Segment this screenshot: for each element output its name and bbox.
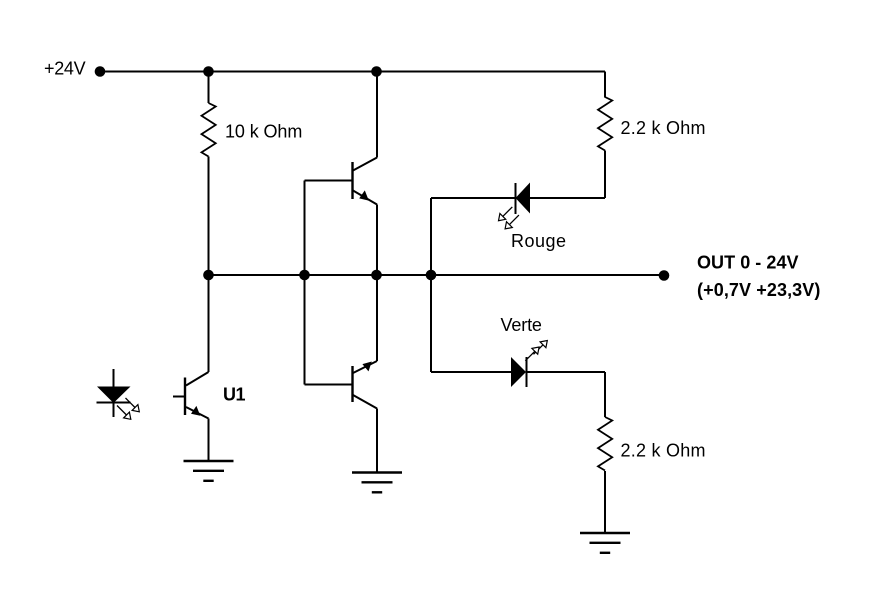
svg-text:Verte: Verte <box>501 315 542 335</box>
svg-text:+24V: +24V <box>44 59 86 79</box>
svg-text:2.2 k Ohm: 2.2 k Ohm <box>621 441 706 461</box>
svg-text:2.2 k Ohm: 2.2 k Ohm <box>621 118 706 138</box>
svg-text:OUT 0 - 24V: OUT 0 - 24V <box>697 253 799 273</box>
svg-text:10 k Ohm: 10 k Ohm <box>225 122 302 142</box>
svg-text:(+0,7V +23,3V): (+0,7V +23,3V) <box>697 280 820 300</box>
svg-text:Rouge: Rouge <box>511 231 567 251</box>
svg-text:U1: U1 <box>223 385 245 405</box>
